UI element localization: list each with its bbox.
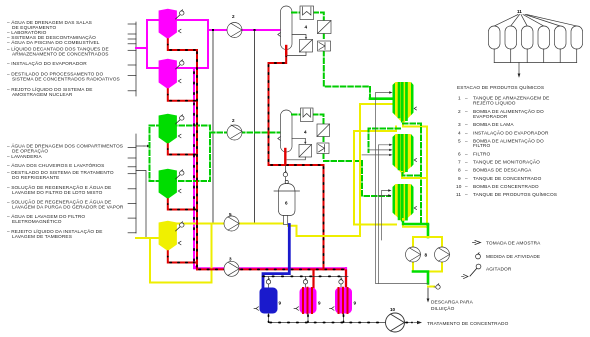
svg-text:–: – <box>465 97 468 102</box>
svg-text:–: – <box>465 185 468 190</box>
svg-text:TANQUE DE CONCENTRADO: TANQUE DE CONCENTRADO <box>473 176 542 182</box>
svg-text:3: 3 <box>229 257 232 262</box>
chemical tank 11-1 <box>489 26 501 49</box>
svg-text:DE OPERAÇÃO: DE OPERAÇÃO <box>12 148 48 155</box>
svg-text:2: 2 <box>232 14 235 19</box>
condenser square unit2 <box>301 108 314 122</box>
activity symbol discharge <box>434 284 440 290</box>
dots on tank drain stubs <box>167 45 169 257</box>
pump 10 <box>386 307 405 332</box>
symbol legend: medida de atividade <box>476 253 481 259</box>
evaporator column U2 <box>281 110 293 152</box>
list1 collector bracket <box>128 22 136 96</box>
symbol legend: agitador <box>470 264 481 276</box>
svg-text:4: 4 <box>304 130 307 135</box>
svg-text:–: – <box>465 131 468 136</box>
svg-text:TOMADA DE AMOSTRA: TOMADA DE AMOSTRA <box>486 240 541 246</box>
black feed line column2 to D2 <box>292 138 305 142</box>
symbol legend: tomada de amostra <box>475 241 481 245</box>
pump 2b <box>227 118 242 140</box>
wire red drain tank4 <box>168 198 197 210</box>
svg-text:–: – <box>465 161 468 166</box>
black dots overlay on red bus <box>196 52 198 268</box>
svg-text:BOMBAS DE DESCARGA: BOMBAS DE DESCARGA <box>473 168 532 174</box>
tank 5 yellow <box>159 221 184 251</box>
svg-text:MEDIDA DE ATIVIDADE: MEDIDA DE ATIVIDADE <box>486 254 540 260</box>
wire green solid drop to pump8 loop <box>427 225 430 237</box>
svg-text:– LÍQUIDO DECANTADO DOS TANQUE: – LÍQUIDO DECANTADO DOS TANQUES DE <box>7 45 109 52</box>
tank 9-2 magenta striped <box>294 288 321 314</box>
svg-text:– ÁGUA DE DRENAGEM DOS COMPART: – ÁGUA DE DRENAGEM DOS COMPARTIMENTOS <box>7 143 123 150</box>
svg-text:– INSTALAÇÃO DO EVAPORADOR: – INSTALAÇÃO DO EVAPORADOR <box>7 60 87 67</box>
wire magenta pump suction line to evaporator 1 <box>208 29 281 31</box>
wire yellow tank A outlet loop <box>403 123 427 227</box>
sample symbol tank2 <box>178 79 181 83</box>
svg-text:3: 3 <box>458 122 461 128</box>
svg-text:–: – <box>465 152 468 157</box>
tank 1 magenta <box>159 9 184 39</box>
svg-text:– ÁGUA DA PISCINA DO COMBUSTÍV: – ÁGUA DA PISCINA DO COMBUSTÍVEL <box>7 39 100 46</box>
wire magenta feed from bracket1 <box>136 47 147 49</box>
black bottom link unit2 <box>287 157 305 160</box>
green dashed unit2 distillate to monitor line <box>324 160 362 162</box>
descarga arrow <box>427 288 429 299</box>
svg-text:– ÁGUA DE LAVAGEM DO FILTRO: – ÁGUA DE LAVAGEM DO FILTRO <box>7 213 85 220</box>
svg-text:LAVAGEM DE TAMBORES: LAVAGEM DE TAMBORES <box>12 234 72 240</box>
svg-text:TANQUE DE MONITORAÇÃO: TANQUE DE MONITORAÇÃO <box>473 159 540 166</box>
svg-text:–: – <box>465 123 468 128</box>
svg-text:–: – <box>465 169 468 174</box>
hx square C unit2 <box>317 143 329 154</box>
svg-text:– REJDTO LÍQUIDO DO SISTEMA DE: – REJDTO LÍQUIDO DO SISTEMA DE <box>7 86 93 93</box>
filter vessel 6 <box>274 180 300 224</box>
svg-text:9: 9 <box>279 301 282 306</box>
wire blue filter concentrate line <box>263 225 289 288</box>
wire yellow from bracket2 to tank5 <box>136 237 158 239</box>
svg-text:– ÁGUA DE DRENAGEM DAS SALAS: – ÁGUA DE DRENAGEM DAS SALAS <box>7 19 92 26</box>
pump 5 <box>224 212 239 231</box>
activity symbol tank9-3 <box>339 278 343 284</box>
wire green dashed tank A outlet left <box>369 129 401 153</box>
activity symbol tank9-1 <box>266 278 270 284</box>
svg-text:4: 4 <box>458 130 461 136</box>
wire black branch A down <box>212 31 214 224</box>
svg-text:ESTACAO DE PRODUTOS QUÍMICOS: ESTACAO DE PRODUTOS QUÍMICOS <box>457 84 544 91</box>
svg-text:ARMAZENAMENTO DE CONCENTRADOS: ARMAZENAMENTO DE CONCENTRADOS <box>12 51 109 57</box>
svg-text:LAVAGEM DO FILTRO DE LDTO MIST: LAVAGEM DO FILTRO DE LDTO MISTO <box>12 190 103 196</box>
wire gray riser 2 with arrows tank B <box>379 145 390 284</box>
svg-text:–: – <box>465 177 468 182</box>
svg-text:AGITADOR: AGITADOR <box>486 267 512 273</box>
hx square B unit2 <box>317 124 330 137</box>
svg-text:10: 10 <box>456 184 462 190</box>
drops from manifold <box>269 276 342 287</box>
wire magenta loop frame around tanks 1-2 <box>147 20 208 68</box>
sample symbol tank4 <box>178 189 181 193</box>
wire green dashed pump2b line to evaporator 2 <box>210 132 281 134</box>
svg-text:INSTALAÇÃO DO EVAPORADOR: INSTALAÇÃO DO EVAPORADOR <box>473 129 549 136</box>
wire yellow filter outlet to monitor tanks <box>288 104 393 236</box>
wire green dashed vertical 368 <box>362 161 390 196</box>
sample symbol right of pump loop <box>464 275 469 279</box>
wire magenta bus down <box>194 68 196 267</box>
LEFT-LIST-2 <box>7 134 150 240</box>
svg-text:6: 6 <box>285 201 288 206</box>
hx square D unit2 <box>299 145 312 158</box>
svg-text:5: 5 <box>458 139 461 145</box>
wire green dashed loop frame around tanks 3-4 <box>150 126 211 182</box>
monitor tank B <box>393 134 417 174</box>
activity symbol tank9-2 <box>303 278 307 284</box>
pump 2a <box>227 14 242 38</box>
svg-text:2: 2 <box>232 118 235 123</box>
wire red dashed evaporator bottoms loop <box>269 53 324 269</box>
monitor tank A <box>393 82 417 123</box>
red stub column1 bottom <box>285 46 287 55</box>
collector lines chemical tanks <box>494 49 577 74</box>
svg-text:9: 9 <box>458 176 461 182</box>
svg-text:BOMBA DE LAMA: BOMBA DE LAMA <box>473 122 514 128</box>
chemical tank 11-3 <box>522 26 534 49</box>
MAIN-2: evaporators, filter, monitor tanks <box>263 6 474 312</box>
wire green dashed tank A outlet right <box>403 124 421 225</box>
wire black dotted concentrate header <box>269 314 344 323</box>
svg-text:8: 8 <box>425 253 428 258</box>
chemical tank 11-5 <box>555 26 567 49</box>
wire black dotted manifold tank tops <box>262 275 348 277</box>
pump 8 loop yellow <box>413 237 442 272</box>
svg-text:1: 1 <box>458 96 461 102</box>
wire tank C outlet to pump loop <box>403 219 428 227</box>
arrow from bracket to green collection line <box>136 145 144 147</box>
svg-text:9: 9 <box>318 301 321 306</box>
svg-text:–: – <box>465 110 468 115</box>
svg-text:TANQUE DE PRODUTOS QUÍMICOS: TANQUE DE PRODUTOS QUÍMICOS <box>473 191 557 198</box>
green solid inlet tank A <box>370 97 393 100</box>
wire dotted after pump10 <box>405 322 414 324</box>
condenser square unit1 <box>300 6 314 20</box>
pump 3 <box>224 257 239 277</box>
fan lines to chemical tanks <box>494 15 577 27</box>
svg-text:DESCARGA PARA: DESCARGA PARA <box>431 300 474 306</box>
wire red drop to tank9-2 <box>312 271 314 288</box>
junction dots on magenta pump line <box>212 29 214 31</box>
thin line bracket to tank4 <box>136 171 146 239</box>
activity symbol tank4 <box>176 175 181 179</box>
tank 4 green <box>159 169 184 199</box>
pump 8 right <box>435 247 450 262</box>
chemical tank 11-6 <box>571 26 583 49</box>
wire red drain tank5 <box>168 250 196 263</box>
LEFT-LIST-1 <box>7 19 136 98</box>
svg-text:–: – <box>465 140 468 145</box>
svg-text:SISTEMA DE CONCENTRADOS RADIOA: SISTEMA DE CONCENTRADOS RADIOATIVOS <box>12 77 120 83</box>
sample symbol column1 <box>278 33 281 37</box>
svg-text:4: 4 <box>305 25 308 30</box>
evaporator column U1 <box>281 6 293 50</box>
chemical tank 11-2 <box>505 26 517 49</box>
hx square C unit1 <box>318 41 331 51</box>
hx square D unit1 <box>300 40 313 53</box>
svg-text:– ÁGUA DOS CHUVEIROS E LAVATÓR: – ÁGUA DOS CHUVEIROS E LAVATÓRIOS <box>7 162 104 169</box>
svg-text:9: 9 <box>354 301 357 306</box>
svg-text:11: 11 <box>456 192 461 198</box>
green solid pump8 bottom run <box>413 272 428 284</box>
wire red pump3 line dashed <box>197 268 346 270</box>
svg-text:– REJEITO LÍQUIDO DA INSTALAÇÃ: – REJEITO LÍQUIDO DA INSTALAÇÃO DE <box>7 228 103 235</box>
svg-text:– LAVANDERIA: – LAVANDERIA <box>7 154 43 160</box>
arrow tratamento <box>414 322 417 324</box>
green dashed unit2 internal links <box>292 115 324 162</box>
MAIN-DIAGRAM <box>136 9 346 283</box>
wire black branch B down <box>254 30 256 224</box>
wire tank B outlet elbows <box>402 172 427 178</box>
wire magenta+red drop to tank9-3 <box>345 268 347 287</box>
svg-text:8: 8 <box>458 168 461 174</box>
activity symbol tank5 <box>176 227 181 231</box>
svg-text:– SOLUÇÃO DE REGENERAÇÃO E ÁGU: – SOLUÇÃO DE REGENERAÇÃO E ÁGUA DE <box>7 184 111 191</box>
sample symbol tank5 <box>178 241 181 245</box>
svg-text:– SOLUÇÃO DE REGENERAÇÃO E ÁGU: – SOLUÇÃO DE REGENERAÇÃO E ÁGUA DE <box>7 199 111 206</box>
wire red drain tank3 <box>168 143 197 155</box>
activity symbol tank2 <box>176 65 181 69</box>
tank 2 magenta <box>159 59 184 89</box>
wire yellow bypass loop <box>150 225 212 283</box>
monitor tank C <box>393 184 417 222</box>
svg-text:–: – <box>465 193 468 198</box>
activity symbol tank1 <box>176 15 181 19</box>
green dashed unit1 internal links <box>292 13 370 99</box>
svg-text:FILTRO: FILTRO <box>473 143 490 149</box>
svg-text:5: 5 <box>229 212 232 217</box>
svg-text:FILTRO: FILTRO <box>473 151 490 157</box>
RIGHT-LEGEND <box>456 9 583 276</box>
tank 9-3 magenta striped <box>330 288 357 314</box>
sample symbol tank3 <box>178 134 181 138</box>
wire yellow monitor recirculation left <box>354 127 396 225</box>
svg-text:REJEITO LÍQUIDO: REJEITO LÍQUIDO <box>473 99 516 106</box>
wire red drain tank2 <box>168 88 197 101</box>
wire red drain tank1 <box>168 38 197 50</box>
svg-text:7: 7 <box>458 160 461 166</box>
tank 3 green <box>159 114 184 144</box>
chemical tank 11-4 <box>538 26 550 49</box>
black feed line column1 to D <box>292 35 306 38</box>
svg-text:EVAPORADOR: EVAPORADOR <box>473 114 508 120</box>
svg-text:6: 6 <box>458 151 461 157</box>
sample symbol tank1 <box>178 29 181 33</box>
svg-text:ELETROMAGNÉTICO: ELETROMAGNÉTICO <box>12 218 62 225</box>
svg-text:TRATAMENTO DE CONCENTRADO: TRATAMENTO DE CONCENTRADO <box>427 321 509 327</box>
wire yellow pump5 line tank5 to filter <box>177 223 284 225</box>
pump 8 left <box>406 247 421 262</box>
wire gray recirculation line <box>376 93 429 284</box>
wire gray arrows tank C <box>382 191 389 241</box>
MAIN-3: bottom tanks and pumps <box>254 268 509 332</box>
red stub column2 bottom <box>284 149 286 164</box>
svg-text:BOMBA DE CONCENTRADO: BOMBA DE CONCENTRADO <box>473 184 539 190</box>
svg-text:LAVAGEM DA PURGA DO GERADOR DE: LAVAGEM DA PURGA DO GERADOR DE VAPOR <box>12 205 124 211</box>
svg-text:10: 10 <box>390 307 396 312</box>
svg-text:AMOSTRAGEM NUCLEAR: AMOSTRAGEM NUCLEAR <box>12 92 73 98</box>
black bottom link unit1 <box>287 52 306 56</box>
wire red bus vertical <box>196 50 198 269</box>
svg-text:DO REFRIGERANTE: DO REFRIGERANTE <box>12 175 59 181</box>
svg-text:2: 2 <box>458 109 461 115</box>
list2 collector bracket <box>128 134 136 233</box>
wire yellow discharge stub <box>428 286 434 288</box>
hx square B unit1 <box>318 21 332 34</box>
svg-text:DILUIÇÃO: DILUIÇÃO <box>431 305 455 312</box>
tank 9-1 blue <box>254 288 282 314</box>
black drop line to filter with activity symbol <box>284 166 286 184</box>
svg-text:11: 11 <box>517 9 522 14</box>
wire magenta pump3 line <box>194 267 346 269</box>
activity symbol tank3 <box>176 120 181 124</box>
sample symbol column2 <box>278 137 281 141</box>
